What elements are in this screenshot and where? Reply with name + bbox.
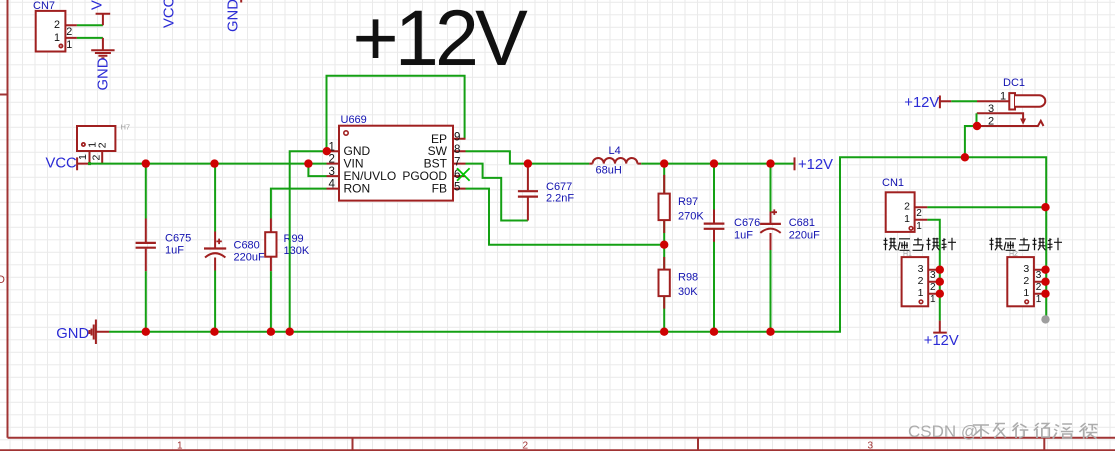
svg-text:D: D xyxy=(0,274,5,286)
svg-text:1: 1 xyxy=(916,221,922,232)
svg-text:R99: R99 xyxy=(284,233,304,245)
svg-text:3: 3 xyxy=(1036,270,1042,281)
junction dot FB divider xyxy=(660,241,668,249)
junction dot SW node xyxy=(524,159,532,167)
wire BST to C677 bottom xyxy=(466,164,528,221)
svg-text:VCC: VCC xyxy=(46,156,78,172)
svg-text:1: 1 xyxy=(54,32,60,44)
junction dot ground branch xyxy=(961,153,969,161)
connector H7 xyxy=(77,123,130,166)
svg-text:U669: U669 xyxy=(341,114,367,126)
wire GND rail xyxy=(109,157,1046,331)
svg-text:1: 1 xyxy=(77,154,89,160)
watermark CSDN xyxy=(908,422,1098,441)
svg-text:1: 1 xyxy=(1023,287,1029,299)
wire FB to divider xyxy=(466,189,665,245)
svg-text:FB: FB xyxy=(432,181,447,195)
wire VIN to EN jog xyxy=(308,164,326,177)
wire CN1 pin2 to right xyxy=(927,206,1045,208)
resistor R99 xyxy=(265,219,310,272)
wire CN7 pin1 to GND xyxy=(77,37,103,39)
svg-text:4: 4 xyxy=(329,179,336,191)
svg-text:C680: C680 xyxy=(234,240,260,252)
svg-text:R98: R98 xyxy=(678,272,698,284)
wire R99 bottom xyxy=(270,271,272,332)
svg-text:220uF: 220uF xyxy=(789,229,820,241)
resistor R97 xyxy=(659,164,705,245)
power port VCC (left rail) xyxy=(46,156,90,172)
wire SW to node xyxy=(466,151,528,163)
capacitor C681 (polarized) xyxy=(760,164,820,332)
svg-text:1: 1 xyxy=(918,287,924,299)
svg-text:2: 2 xyxy=(66,26,72,38)
svg-text:C677: C677 xyxy=(546,181,572,193)
svg-text:C681: C681 xyxy=(789,217,815,229)
junction dots output rail xyxy=(660,159,775,167)
svg-text:+12V: +12V xyxy=(798,157,833,173)
svg-text:1uF: 1uF xyxy=(734,229,753,241)
junction dots GND rail xyxy=(142,328,775,336)
svg-text:2: 2 xyxy=(329,154,335,166)
label 排座与排针 (H2) xyxy=(990,238,1063,251)
resistor R98 xyxy=(659,245,699,332)
wire RON to R99 xyxy=(271,189,327,219)
svg-text:2: 2 xyxy=(91,155,103,161)
svg-text:GND: GND xyxy=(56,326,89,342)
svg-text:+12V: +12V xyxy=(353,0,529,82)
label 排座与排针 (H1) xyxy=(884,238,957,251)
svg-text:9: 9 xyxy=(454,131,460,143)
svg-text:2: 2 xyxy=(96,142,108,148)
IC U669 xyxy=(327,114,466,201)
junction dots H1 pins xyxy=(936,266,944,298)
wire EP loop (pin1 to pin9 over top) xyxy=(327,76,465,152)
wire end (dangling, gray dot) xyxy=(1041,315,1049,323)
svg-text:130K: 130K xyxy=(284,245,310,257)
svg-text:8: 8 xyxy=(454,144,460,156)
connector CN7 xyxy=(33,0,77,52)
svg-text:2: 2 xyxy=(904,200,910,212)
wire VCC rail xyxy=(90,163,327,165)
svg-text:C675: C675 xyxy=(165,233,191,245)
wire C680 top xyxy=(214,164,216,232)
svg-text:R97: R97 xyxy=(678,196,698,208)
capacitor C680 (polarized) xyxy=(204,232,265,271)
svg-text:1: 1 xyxy=(1036,294,1042,305)
svg-text:2: 2 xyxy=(988,115,994,127)
svg-text:H7: H7 xyxy=(121,123,131,132)
wire CN7 pin2 to VCC xyxy=(77,24,103,26)
svg-text:CN1: CN1 xyxy=(882,177,904,189)
svg-text:7: 7 xyxy=(454,156,460,168)
svg-text:3: 3 xyxy=(930,270,936,281)
DC jack DC1 xyxy=(977,77,1046,127)
svg-text:3: 3 xyxy=(988,103,994,115)
svg-text:220uF: 220uF xyxy=(234,252,265,264)
capacitor C677 xyxy=(518,167,575,221)
svg-text:1: 1 xyxy=(930,294,936,305)
svg-text:CSDN @: CSDN @ xyxy=(908,422,978,441)
svg-text:1: 1 xyxy=(904,213,910,225)
junction dot DC1 pins xyxy=(973,122,981,130)
junction dot CN1 pin2 xyxy=(1041,203,1049,211)
svg-text:2: 2 xyxy=(54,19,60,31)
svg-text:270K: 270K xyxy=(678,210,704,222)
svg-text:2: 2 xyxy=(918,275,924,287)
inductor L4 xyxy=(589,145,641,176)
svg-text:1: 1 xyxy=(177,441,183,451)
svg-text:2.2nF: 2.2nF xyxy=(546,193,574,205)
svg-text:L4: L4 xyxy=(609,145,621,157)
wire C680 bottom xyxy=(214,271,216,332)
svg-text:GND: GND xyxy=(226,0,242,32)
svg-text:3: 3 xyxy=(868,441,874,451)
wire L4 to output rail xyxy=(641,163,794,165)
wire DC1 pin3 down xyxy=(976,113,978,126)
svg-text:DC1: DC1 xyxy=(1003,77,1025,89)
capacitor C676 xyxy=(704,164,761,332)
no-connect X on PGOOD xyxy=(457,168,470,181)
svg-text:C676: C676 xyxy=(734,217,760,229)
svg-text:30K: 30K xyxy=(678,286,698,298)
svg-text:VCC: VCC xyxy=(162,0,178,28)
junction dot pin1/EP loop xyxy=(323,147,331,155)
svg-text:1: 1 xyxy=(66,39,72,51)
svg-text:2: 2 xyxy=(916,208,922,219)
wire DC1 pin2 to ground branch xyxy=(965,126,977,157)
power port +12V (at DC1) xyxy=(904,95,951,111)
connector CN1 xyxy=(882,177,927,232)
junction dots VCC rail xyxy=(142,159,313,167)
wire C675 top xyxy=(145,164,147,219)
wire C675 bottom xyxy=(145,271,147,332)
svg-text:+12V: +12V xyxy=(904,95,939,111)
power ground GND (top, at CN7) xyxy=(91,38,114,91)
wire SW node to L4 xyxy=(528,163,589,165)
capacitor C675 xyxy=(136,219,192,272)
svg-text:RON: RON xyxy=(344,181,371,195)
svg-text:3: 3 xyxy=(1023,263,1029,275)
header H2 (socket/pin strip) xyxy=(1007,251,1045,306)
svg-text:2: 2 xyxy=(1036,282,1042,293)
svg-text:3: 3 xyxy=(918,263,924,275)
svg-text:2: 2 xyxy=(1023,275,1029,287)
wire CN1 pin1 down to H1 xyxy=(927,220,939,321)
svg-text:1uF: 1uF xyxy=(165,245,184,257)
power port +12V (below H1) xyxy=(924,321,959,349)
junction dots H2 pins xyxy=(1041,266,1049,298)
header H1 (socket/pin strip) xyxy=(902,251,940,306)
svg-text:1: 1 xyxy=(1000,91,1006,103)
svg-text:2: 2 xyxy=(930,282,936,293)
svg-text:3: 3 xyxy=(329,166,335,178)
wire U669 pin1 GND down xyxy=(290,151,327,332)
net label GND (floating, top) xyxy=(226,0,242,32)
svg-text:VCC: VCC xyxy=(89,0,105,10)
power port VCC (top, at CN7) xyxy=(89,0,110,25)
power ground GND (left rail symbol) xyxy=(89,320,109,345)
svg-text:GND: GND xyxy=(96,58,112,91)
svg-text:2: 2 xyxy=(523,441,529,451)
wire +12V to DC1 pin1 xyxy=(951,100,977,102)
power port +12V (output rail) xyxy=(795,157,834,173)
svg-text:5: 5 xyxy=(454,181,460,193)
svg-text:+12V: +12V xyxy=(924,333,959,349)
svg-text:68uH: 68uH xyxy=(596,164,622,176)
